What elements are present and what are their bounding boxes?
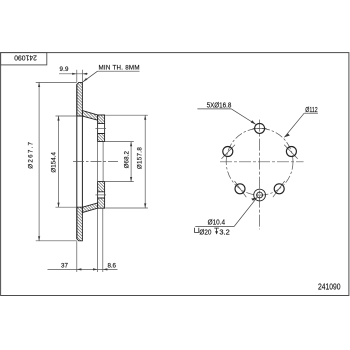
- svg-text:8.6: 8.6: [108, 262, 117, 269]
- svg-text:241090: 241090: [318, 281, 341, 291]
- svg-text:Ø10.4: Ø10.4: [208, 218, 226, 227]
- svg-text:3.2: 3.2: [219, 227, 229, 236]
- svg-text:Ø68.2: Ø68.2: [124, 151, 131, 169]
- svg-text:Ø112: Ø112: [305, 105, 317, 114]
- svg-text:Ø154.4: Ø154.4: [50, 152, 57, 173]
- svg-text:9.9: 9.9: [60, 66, 70, 73]
- svg-text:241090: 241090: [14, 53, 37, 62]
- svg-text:Ø267.7: Ø267.7: [27, 141, 34, 168]
- svg-text:Ø157.8: Ø157.8: [137, 147, 144, 169]
- svg-text:MIN TH. 8MM: MIN TH. 8MM: [99, 64, 140, 71]
- svg-text:5XØ16.8: 5XØ16.8: [207, 100, 232, 109]
- svg-text:Ø20: Ø20: [199, 227, 211, 236]
- svg-text:37: 37: [61, 262, 69, 269]
